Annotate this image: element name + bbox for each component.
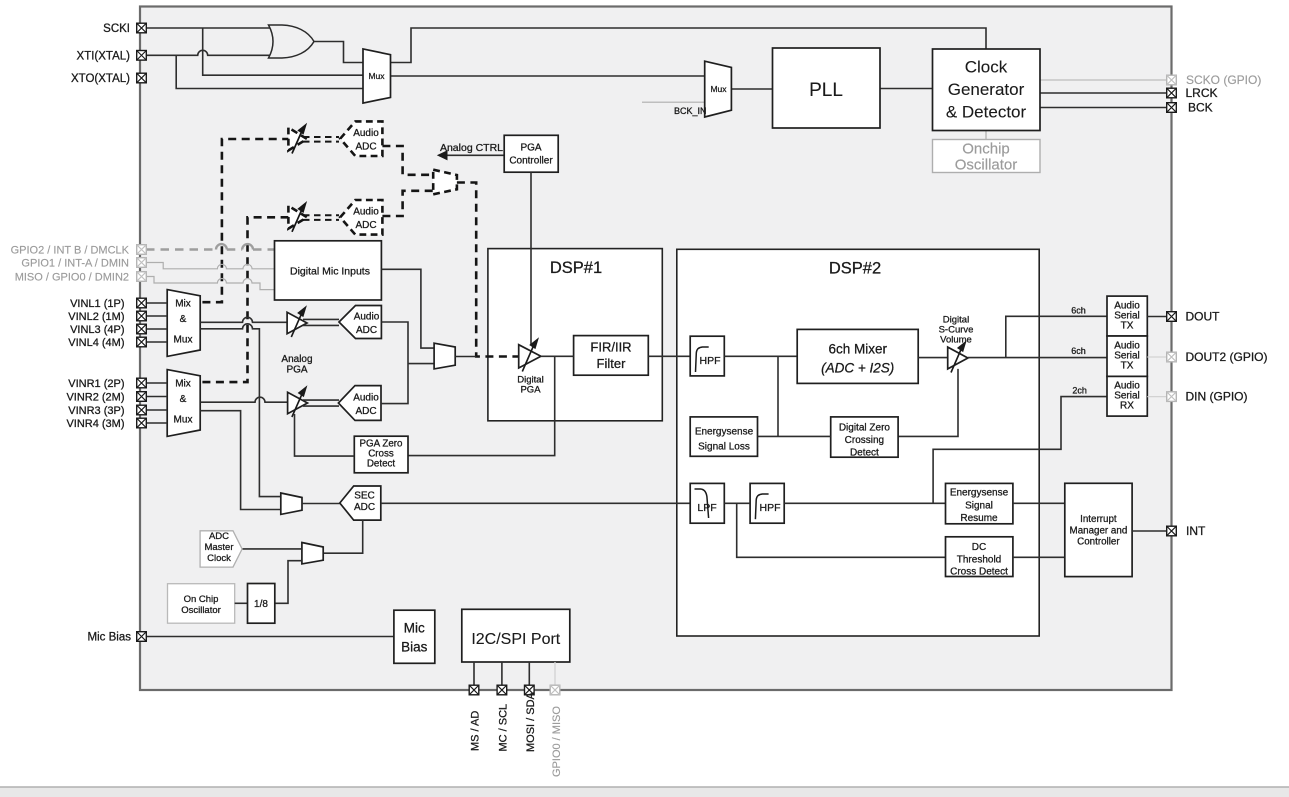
svg-text:2ch: 2ch	[1072, 386, 1087, 396]
svg-text:VINR3 (3P): VINR3 (3P)	[68, 405, 124, 417]
svg-text:Signal Loss: Signal Loss	[698, 442, 750, 453]
svg-text:6ch: 6ch	[1071, 306, 1086, 316]
svg-text:Clock: Clock	[207, 553, 231, 564]
svg-text:On Chip: On Chip	[184, 594, 219, 605]
svg-text:Manager and: Manager and	[1070, 526, 1128, 537]
svg-text:Analog: Analog	[281, 354, 312, 365]
svg-text:Mux: Mux	[368, 71, 385, 81]
svg-text:Filter: Filter	[597, 356, 627, 371]
svg-text:Mux: Mux	[174, 335, 193, 346]
svg-text:Volume: Volume	[940, 335, 972, 346]
svg-text:ADC: ADC	[355, 142, 376, 153]
svg-text:Bias: Bias	[401, 640, 428, 655]
svg-text:Audio: Audio	[353, 393, 379, 404]
svg-text:&: &	[180, 394, 187, 405]
svg-text:BCK_IN: BCK_IN	[674, 106, 707, 116]
svg-text:PGA: PGA	[520, 143, 541, 154]
svg-text:BCK: BCK	[1188, 101, 1213, 115]
svg-text:VINL4 (4M): VINL4 (4M)	[68, 337, 124, 349]
svg-text:SEC: SEC	[354, 491, 375, 502]
svg-text:SCKO (GPIO): SCKO (GPIO)	[1186, 73, 1261, 87]
svg-text:TX: TX	[1121, 361, 1134, 372]
svg-text:VINR2 (2M): VINR2 (2M)	[66, 392, 124, 404]
svg-text:& Detector: & Detector	[946, 103, 1027, 122]
svg-text:ADC: ADC	[355, 220, 376, 231]
svg-text:Cross Detect: Cross Detect	[950, 567, 1008, 578]
svg-text:XTO(XTAL): XTO(XTAL)	[71, 73, 130, 85]
svg-text:LPF: LPF	[697, 502, 716, 514]
svg-text:Audio: Audio	[353, 207, 379, 218]
svg-text:Onchip: Onchip	[962, 141, 1010, 158]
svg-text:1/8: 1/8	[254, 599, 268, 610]
svg-text:Crossing: Crossing	[845, 435, 884, 446]
svg-text:Generator: Generator	[948, 80, 1025, 99]
svg-text:PLL: PLL	[809, 80, 843, 101]
svg-text:Mix: Mix	[175, 379, 191, 390]
svg-text:XTI(XTAL): XTI(XTAL)	[77, 50, 131, 62]
svg-text:ADC: ADC	[356, 325, 377, 336]
svg-text:GPIO0 / MISO: GPIO0 / MISO	[551, 706, 563, 777]
svg-text:DOUT: DOUT	[1186, 310, 1221, 324]
svg-text:INT: INT	[1186, 524, 1206, 538]
svg-text:MS / AD: MS / AD	[470, 711, 482, 751]
svg-text:Threshold: Threshold	[957, 555, 1001, 566]
svg-text:Resume: Resume	[960, 513, 998, 524]
svg-text:Mux: Mux	[710, 84, 727, 94]
svg-text:VINL3 (4P): VINL3 (4P)	[70, 324, 124, 336]
svg-text:VINR1 (2P): VINR1 (2P)	[68, 378, 124, 390]
svg-text:Clock: Clock	[965, 58, 1008, 77]
svg-text:Mux: Mux	[174, 415, 193, 426]
svg-text:DSP#1: DSP#1	[550, 259, 602, 277]
svg-text:VINL2 (1M): VINL2 (1M)	[68, 311, 124, 323]
svg-text:MOSI / SDA: MOSI / SDA	[525, 691, 537, 752]
svg-text:VINL1 (1P): VINL1 (1P)	[70, 298, 124, 310]
svg-text:SCKI: SCKI	[103, 23, 130, 35]
svg-text:HPF: HPF	[700, 355, 721, 367]
svg-text:DC: DC	[972, 542, 986, 553]
svg-text:HPF: HPF	[760, 502, 781, 514]
svg-text:ADC: ADC	[209, 531, 229, 542]
svg-text:GPIO1 / INT-A / DMIN: GPIO1 / INT-A / DMIN	[21, 258, 129, 270]
svg-text:Mic Bias: Mic Bias	[88, 632, 132, 644]
svg-text:RX: RX	[1120, 401, 1134, 412]
svg-text:Digital Mic Inputs: Digital Mic Inputs	[290, 266, 370, 278]
svg-text:Oscillator: Oscillator	[181, 605, 221, 616]
svg-text:Signal: Signal	[965, 501, 993, 512]
svg-text:Audio: Audio	[353, 128, 379, 139]
svg-text:&: &	[180, 314, 187, 325]
svg-text:Oscillator: Oscillator	[955, 157, 1018, 174]
svg-text:Mic: Mic	[404, 621, 425, 636]
svg-text:6ch: 6ch	[1071, 346, 1086, 356]
svg-text:Audio: Audio	[354, 312, 380, 323]
svg-text:6ch Mixer: 6ch Mixer	[828, 342, 887, 357]
svg-text:DSP#2: DSP#2	[829, 260, 881, 278]
svg-text:ADC: ADC	[355, 406, 376, 417]
svg-text:DIN (GPIO): DIN (GPIO)	[1186, 390, 1248, 404]
svg-text:PGA: PGA	[520, 385, 541, 396]
svg-text:LRCK: LRCK	[1186, 86, 1218, 100]
svg-text:GPIO2 / INT B / DMCLK: GPIO2 / INT B / DMCLK	[11, 245, 130, 257]
svg-text:FIR/IIR: FIR/IIR	[590, 340, 631, 355]
svg-text:DOUT2 (GPIO): DOUT2 (GPIO)	[1186, 350, 1268, 364]
svg-text:Detect: Detect	[367, 459, 396, 470]
svg-text:Detect: Detect	[850, 448, 879, 459]
svg-text:(ADC + I2S): (ADC + I2S)	[821, 361, 894, 376]
svg-text:Controller: Controller	[1077, 537, 1120, 548]
svg-text:Energysense: Energysense	[950, 488, 1009, 499]
svg-text:Interrupt: Interrupt	[1080, 514, 1117, 525]
svg-text:VINR4 (3M): VINR4 (3M)	[66, 418, 124, 430]
svg-text:I2C/SPI Port: I2C/SPI Port	[471, 631, 560, 648]
svg-text:Controller: Controller	[509, 156, 553, 167]
svg-text:Analog CTRL: Analog CTRL	[440, 142, 503, 154]
svg-text:ADC: ADC	[354, 502, 375, 513]
svg-text:Mix: Mix	[175, 299, 191, 310]
svg-text:MC / SCL: MC / SCL	[497, 704, 509, 752]
svg-text:TX: TX	[1121, 321, 1134, 332]
svg-text:Digital Zero: Digital Zero	[839, 423, 891, 434]
svg-text:PGA: PGA	[286, 365, 307, 376]
svg-text:Energysense: Energysense	[695, 427, 754, 438]
svg-text:MISO / GPIO0 / DMIN2: MISO / GPIO0 / DMIN2	[15, 272, 129, 284]
svg-text:Master: Master	[204, 542, 233, 553]
